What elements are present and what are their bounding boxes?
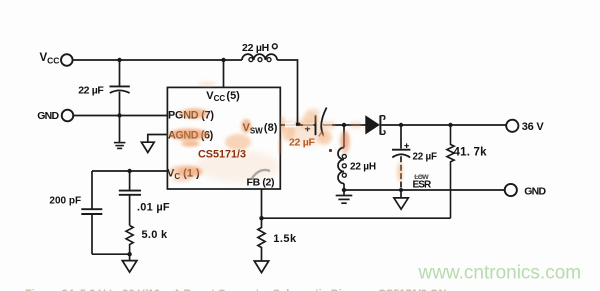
wire FB pin <box>261 189 263 218</box>
junction VCC pin <box>221 58 225 62</box>
junction R2 node <box>448 123 452 127</box>
junction C5 node <box>399 123 403 127</box>
capacitor C5 22uF output <box>400 125 402 149</box>
capacitor C1 22uF <box>119 60 121 86</box>
wire VCC rail <box>73 59 242 61</box>
svg-text:www.cntronics.com: www.cntronics.com <box>418 263 582 284</box>
svg-text:22 µF: 22 µF <box>78 85 104 97</box>
decoration <box>168 81 361 182</box>
resistor R1 5.0k <box>126 226 133 255</box>
wire GND output line <box>344 189 505 191</box>
resistor R3 1.5k <box>258 218 265 261</box>
grey swoosh above FB <box>252 170 270 178</box>
wire FB to R2 <box>262 217 451 219</box>
ground triangle below C5 <box>400 190 402 198</box>
junction bottom VC branch <box>127 252 131 256</box>
terminal 36V <box>506 120 518 132</box>
svg-text:22 µH: 22 µH <box>350 162 376 173</box>
svg-text:5.0 k: 5.0 k <box>142 229 169 241</box>
capacitor C4 22uF series <box>315 115 317 135</box>
ground triangle below R3 <box>254 261 268 273</box>
ground earth below C1 <box>114 143 126 149</box>
svg-text:22 µF: 22 µF <box>413 152 437 163</box>
svg-text:200 pF: 200 pF <box>49 196 81 207</box>
junction L2/GND line <box>342 188 346 192</box>
ground earth below L2 <box>343 190 345 195</box>
wire GND to PGND pin <box>73 115 167 117</box>
svg-text:GND: GND <box>524 185 546 197</box>
junction GND/C1 <box>117 113 121 117</box>
capacitor C3 .01uF <box>129 171 131 190</box>
svg-text:22 µF: 22 µF <box>289 136 315 148</box>
svg-text:1.5k: 1.5k <box>273 233 297 245</box>
svg-text:22 µH: 22 µH <box>242 42 269 54</box>
wire AGND <box>148 135 168 143</box>
svg-text:GND: GND <box>37 110 59 122</box>
svg-text:FB (2): FB (2) <box>247 177 275 189</box>
svg-text:CS5171/3: CS5171/3 <box>198 149 246 161</box>
svg-text:41. 7k: 41. 7k <box>454 146 488 158</box>
svg-text:VCC(5): VCC(5) <box>206 90 240 103</box>
inductor L1 22uH <box>242 54 277 60</box>
terminal GND <box>62 110 74 122</box>
junction VC node <box>127 169 131 173</box>
ground triangle below R1 <box>129 254 131 261</box>
junction L2 node <box>342 123 346 127</box>
phase dot L1 <box>272 44 277 49</box>
wire VSW pin <box>280 124 315 126</box>
wire VCC pin stub <box>223 60 225 87</box>
diode D1 schottky <box>366 117 379 134</box>
wire C4 to D1 <box>324 124 367 126</box>
wire L1 to VSW line <box>277 60 297 125</box>
terminal GND output <box>505 184 517 196</box>
wire VC pin <box>92 170 167 172</box>
svg-text:36 V: 36 V <box>522 121 545 133</box>
wire D1 to 36V terminal <box>381 124 506 126</box>
terminal VCC <box>61 54 73 66</box>
svg-text:VCC: VCC <box>40 52 60 65</box>
svg-text:.01 µF: .01 µF <box>137 202 170 214</box>
ground triangle AGND <box>141 142 154 152</box>
junction GND/C5 <box>399 188 403 192</box>
wire VC branch bottom <box>92 253 130 255</box>
capacitor C2 200pF <box>91 171 93 209</box>
svg-text:ESR: ESR <box>413 180 433 191</box>
inductor L2 22uH <box>343 125 345 148</box>
junction FB <box>259 216 263 220</box>
IC U1 CS5171/3 box <box>167 87 280 189</box>
junction VCC/C1 <box>117 58 121 62</box>
resistor R2 41.7k <box>447 125 454 218</box>
